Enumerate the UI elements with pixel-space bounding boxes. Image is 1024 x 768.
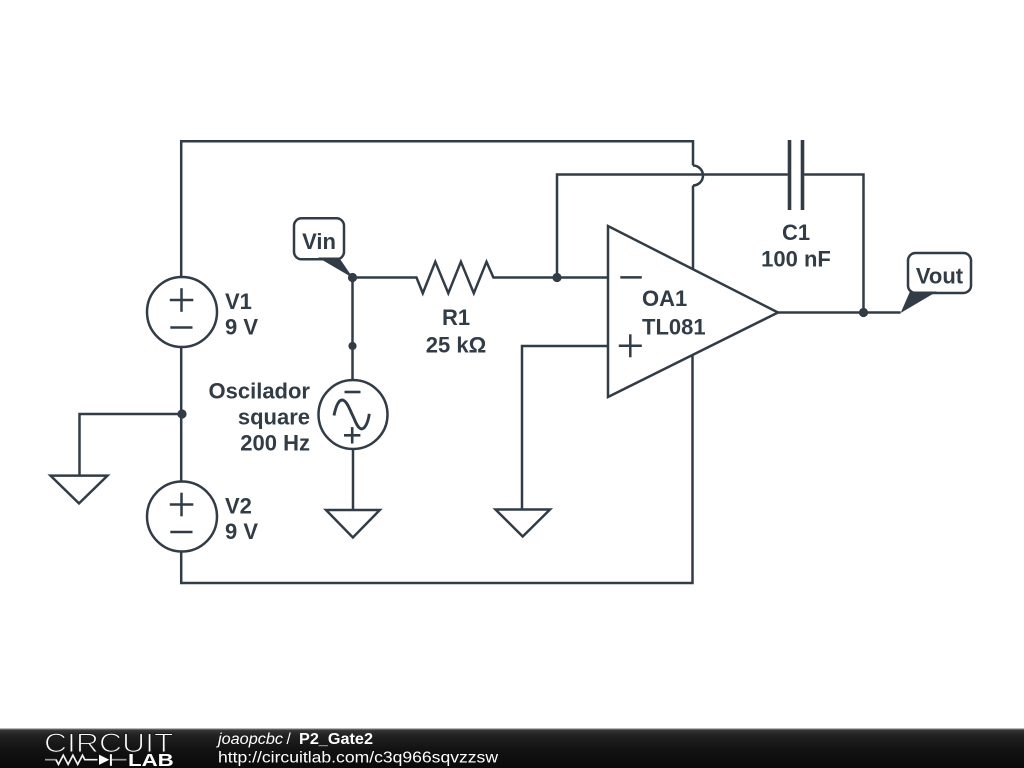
svg-text:/: / (287, 731, 292, 748)
svg-text:joaopcbc: joaopcbc (216, 731, 283, 748)
svg-text:25 kΩ: 25 kΩ (426, 333, 486, 358)
svg-text:R1: R1 (442, 305, 470, 330)
svg-text:C1: C1 (782, 220, 810, 245)
svg-text:TL081: TL081 (642, 315, 706, 340)
svg-text:P2_Gate2: P2_Gate2 (299, 731, 373, 748)
svg-text:square: square (238, 405, 310, 430)
svg-text:9 V: 9 V (225, 315, 258, 340)
svg-text:OA1: OA1 (642, 286, 687, 311)
svg-text:Vout: Vout (916, 264, 964, 289)
svg-text:9 V: 9 V (225, 519, 258, 544)
svg-text:Vin: Vin (302, 229, 336, 254)
svg-text:Oscilador: Oscilador (209, 379, 311, 404)
svg-text:http://circuitlab.com/c3q966sq: http://circuitlab.com/c3q966sqvzzsw (218, 750, 499, 767)
svg-text:200 Hz: 200 Hz (240, 431, 310, 456)
svg-text:100 nF: 100 nF (761, 246, 831, 271)
svg-text:V1: V1 (225, 289, 252, 314)
svg-text:LAB: LAB (128, 750, 174, 768)
svg-text:V2: V2 (225, 494, 252, 519)
